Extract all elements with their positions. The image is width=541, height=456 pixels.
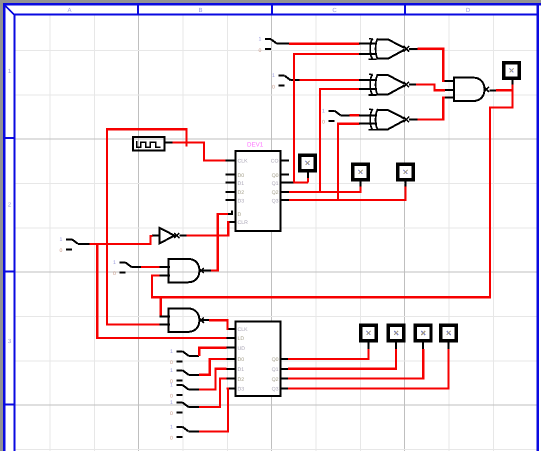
wire Sa to A1 input A — [141, 266, 160, 268]
svg-text:D1: D1 — [238, 367, 245, 373]
svg-text:CLK: CLK — [238, 159, 249, 165]
inner blue border right — [537, 6, 540, 452]
and gate A1 output stub — [203, 270, 211, 272]
U2 pin LD stub — [227, 337, 236, 339]
logic probe P2 — [300, 155, 316, 171]
wire U2 Q1 to probe P6 — [281, 368, 289, 370]
outer blue border — [3, 3, 541, 6]
svg-text:B: B — [198, 7, 202, 14]
wire S8 to U2 D3 — [199, 389, 228, 432]
U2 pin D2 stub — [227, 378, 236, 380]
svg-text:0: 0 — [113, 271, 116, 277]
svg-text:D3: D3 — [238, 387, 245, 393]
logic probe P5 — [361, 325, 377, 341]
wire U1 Q3 node — [281, 199, 290, 201]
svg-text:1: 1 — [170, 400, 173, 406]
wire Sm branch to U2 LD — [97, 244, 227, 338]
U1 pin CLR stub — [229, 221, 235, 223]
svg-text:1: 1 — [170, 383, 173, 389]
svg-text:1: 1 — [170, 349, 173, 355]
A2 input B pin — [159, 323, 170, 325]
X2 input pins — [359, 79, 377, 81]
border tick left 1 — [6, 137, 14, 139]
wire X2 out to A3 input B — [416, 85, 445, 91]
buffer B1 — [159, 228, 174, 244]
svg-text:Q0: Q0 — [272, 173, 279, 179]
xor gate X2 — [370, 74, 373, 95]
svg-text:1: 1 — [259, 37, 262, 43]
svg-text:0: 0 — [272, 84, 275, 90]
wire U2 Q3 to probe P8 — [281, 388, 289, 390]
A2 input A pin — [159, 316, 170, 318]
U1 pin Q0 stub — [281, 174, 290, 176]
wire buffer B1 out to U1 CLR — [187, 222, 230, 236]
svg-text:Q2: Q2 — [272, 377, 279, 383]
svg-text:D: D — [466, 7, 471, 14]
X3 input pins — [359, 114, 377, 116]
wire S3 to X3 input A — [350, 114, 360, 116]
svg-text:1: 1 — [272, 73, 275, 79]
svg-text:Q2: Q2 — [272, 190, 279, 196]
svg-text:D2: D2 — [238, 190, 245, 196]
inner blue border top — [14, 14, 540, 16]
wire U2 Q0 to probe P5 — [281, 358, 289, 360]
and gate A2 — [169, 309, 188, 332]
svg-text:1: 1 — [60, 237, 63, 243]
svg-text:CO: CO — [271, 159, 279, 165]
svg-text:0: 0 — [259, 48, 262, 54]
U1 pin D2 stub — [225, 191, 235, 193]
logic probe P7 — [415, 325, 431, 341]
svg-text:CLK: CLK — [238, 327, 249, 333]
wire A2 out to U2 CLK — [209, 320, 227, 329]
svg-text:D: D — [238, 212, 242, 218]
svg-text:1: 1 — [170, 424, 173, 430]
corner diagonal — [5, 6, 14, 15]
svg-text:Q0: Q0 — [272, 357, 279, 363]
and gate A3 (3-input) — [454, 78, 473, 101]
svg-text:DEV1: DEV1 — [247, 142, 264, 149]
xor gate X3 — [370, 109, 373, 130]
svg-text:1: 1 — [170, 368, 173, 374]
wire X3 out to A3 input C — [418, 98, 446, 120]
border tick top 2 — [271, 6, 273, 14]
U1 pin D1 stub — [225, 182, 235, 184]
clock output pin — [165, 142, 173, 144]
svg-text:D1: D1 — [238, 181, 245, 187]
device U2 body — [235, 322, 280, 397]
wire S1 to X1 input A — [289, 43, 359, 45]
svg-text:1: 1 — [8, 68, 12, 75]
wire clock to U1 CLK — [173, 143, 226, 161]
svg-text:0: 0 — [60, 248, 63, 254]
wire S5 to U2 D0 — [199, 359, 227, 375]
inner blue border left — [14, 16, 16, 452]
U2 pin D1 stub — [227, 368, 236, 370]
svg-text:0: 0 — [170, 394, 173, 400]
logic probe P8 — [441, 325, 457, 341]
wire Sm to buffer B1 — [89, 236, 152, 244]
junction clock node — [186, 139, 188, 147]
svg-text:1: 1 — [322, 108, 325, 114]
wire S4 to U2 UD — [199, 348, 227, 356]
xor gate X1 — [370, 39, 373, 60]
sheet outer gray band — [0, 0, 541, 3]
wire U2 Q2 to probe P7 — [281, 378, 289, 380]
wire S7 to U2 D2 — [199, 379, 227, 407]
svg-text:Q3: Q3 — [272, 387, 279, 393]
U1 pin CLK stub — [225, 159, 235, 161]
svg-text:Q1: Q1 — [272, 367, 279, 373]
wire A1 out to U1 UD — [211, 214, 228, 271]
A1 input B pin — [159, 275, 170, 277]
border tick top 1 — [137, 6, 139, 14]
wire S2 to X2 input A — [299, 79, 359, 81]
svg-text:D3: D3 — [238, 198, 245, 204]
U1 pin D0 stub — [225, 174, 235, 176]
svg-text:0: 0 — [322, 120, 325, 126]
U2 pin CLK stub — [227, 328, 236, 330]
wire U1 Q1 node — [281, 182, 294, 184]
A1 input A pin — [159, 266, 170, 268]
clock generator CLK1 box — [133, 137, 165, 151]
and gate A2 output stub — [203, 319, 210, 321]
U2 pin D0 stub — [227, 358, 236, 360]
svg-text:A: A — [67, 7, 71, 14]
U1 pin CO stub — [281, 159, 290, 161]
clock generator waveform — [137, 141, 161, 148]
U2 pin D3 stub — [227, 388, 236, 390]
border tick top 3 — [404, 6, 406, 14]
svg-text:D2: D2 — [238, 377, 245, 383]
U1 pin UD stub — [227, 213, 232, 215]
grid — [49, 16, 51, 452]
wire branch to A2 input A — [160, 297, 162, 316]
A3 input pins — [445, 80, 456, 82]
svg-text:Q1: Q1 — [272, 181, 279, 187]
logic probe P1 — [504, 63, 520, 79]
device U1 DEV1 body — [235, 151, 280, 231]
border tick left 2 — [6, 270, 14, 272]
logic probe P3 — [353, 164, 369, 180]
svg-text:2: 2 — [8, 202, 12, 209]
wire U1 Q2 node — [281, 191, 290, 193]
svg-text:CLR: CLR — [238, 220, 249, 226]
U2 pin UD stub — [227, 347, 236, 349]
svg-text:LD: LD — [238, 336, 245, 342]
wire A3 out to probe P1 — [496, 85, 513, 91]
svg-text:0: 0 — [170, 360, 173, 366]
and gate A3 output stub — [489, 89, 496, 91]
X1 input pins — [359, 43, 377, 45]
border tick left 3 — [6, 404, 14, 406]
svg-text:0: 0 — [170, 411, 173, 417]
logic probe P6 — [388, 325, 404, 341]
svg-text:Q3: Q3 — [272, 198, 279, 204]
wire A3 out loop to A1 input B — [152, 90, 513, 297]
svg-text:1: 1 — [113, 260, 116, 266]
svg-text:UD: UD — [238, 346, 246, 352]
svg-text:D0: D0 — [238, 173, 245, 179]
svg-text:D0: D0 — [238, 357, 245, 363]
logic probe P4 — [398, 164, 414, 180]
wire clock node to A2 input B — [107, 129, 187, 324]
wire S6 to U2 D1 — [199, 369, 227, 390]
svg-text:3: 3 — [8, 338, 12, 345]
svg-text:C: C — [332, 7, 337, 14]
wire X1 out to A3 input A — [418, 49, 446, 81]
and gate A1 — [169, 259, 188, 282]
U1 pin D3 stub — [225, 199, 235, 201]
svg-text:0: 0 — [170, 436, 173, 442]
